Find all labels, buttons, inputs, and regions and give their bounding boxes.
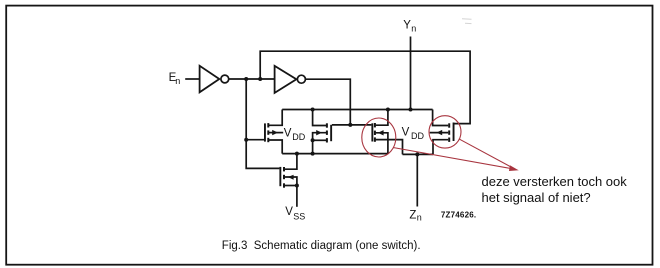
node E_n label: [169, 72, 181, 86]
wire T2 bulk to rail: [313, 133, 327, 154]
wire bottom rail: [282, 153, 388, 155]
node V_DD label 2: [402, 126, 425, 141]
node junction dots: [244, 77, 419, 188]
op-amp U2 inverter: [275, 66, 306, 93]
transistor T2: [316, 123, 332, 142]
transistor T6: [436, 123, 454, 142]
svg-text:7Z74626.: 7Z74626.: [441, 211, 476, 220]
wire T6 bulk: [430, 132, 449, 134]
svg-text:V: V: [285, 206, 293, 218]
wire T1 gate lead: [246, 139, 264, 141]
transistor T3: [279, 167, 293, 188]
annotation ellipse around T6: [429, 116, 461, 148]
svg-text:n: n: [417, 213, 422, 223]
wire gate line T2-T4: [332, 124, 372, 126]
wire node A vertical to T1/T3 gates: [246, 79, 279, 168]
wire T1 drain up: [269, 110, 282, 126]
scan smudge: [462, 19, 472, 24]
wire T2 drain up: [313, 110, 327, 126]
svg-text:deze versterken toch ook: deze versterken toch ook: [482, 174, 628, 189]
svg-text:DD: DD: [292, 132, 305, 142]
node V_SS label: [285, 206, 305, 222]
svg-text:Fig.3 Schematic diagram (one: Fig.3 Schematic diagram (one switch).: [222, 240, 421, 252]
wire inverter1 to inverter2: [229, 78, 275, 80]
svg-text:V: V: [284, 128, 292, 140]
wire inverter2 output: [306, 79, 351, 125]
node Y_n label: [403, 19, 416, 33]
wire T3 bulk: [285, 177, 297, 186]
wire Y_n drop: [410, 37, 412, 110]
svg-text:SS: SS: [293, 212, 305, 222]
svg-text:het signaal of niet?: het signaal of niet?: [482, 190, 591, 205]
transistor T4: [371, 123, 383, 142]
wire E_n lead: [185, 78, 199, 80]
annotation text: [482, 174, 628, 205]
caption Fig.3: [222, 240, 421, 252]
wire T2 source: [313, 139, 327, 141]
wire feedback box top to T6 gate: [260, 51, 470, 123]
wire top rail: [282, 109, 432, 111]
wire T6 source down: [433, 140, 448, 155]
svg-text:V: V: [402, 126, 410, 138]
wire T4 source to Z rail: [376, 140, 403, 155]
wire T4 drain up: [376, 110, 388, 126]
annotation ellipse around T4: [362, 118, 396, 157]
svg-text:DD: DD: [411, 131, 424, 141]
svg-text:n: n: [175, 76, 180, 86]
transistor T1: [264, 123, 278, 142]
wire V_SS drop: [296, 186, 298, 207]
wire T4 bulk down: [376, 133, 388, 154]
label 7Z74626: [441, 211, 476, 220]
wire T6 drain up: [433, 110, 449, 126]
node V_DD label 1: [284, 128, 306, 142]
wire Z_n drop: [416, 154, 418, 206]
svg-text:Y: Y: [403, 19, 411, 31]
svg-text:n: n: [411, 24, 416, 34]
wire T1 bulk: [269, 132, 283, 134]
annotation pointer lines: [393, 139, 517, 171]
node Z_n label: [409, 209, 421, 222]
svg-text:Z: Z: [409, 209, 416, 221]
wire T3 drain up: [285, 154, 297, 170]
wire Z rail: [403, 153, 434, 155]
op-amp U1 inverter: [200, 66, 229, 93]
wire T1 source down: [269, 140, 282, 154]
wire T3 source: [285, 185, 297, 187]
